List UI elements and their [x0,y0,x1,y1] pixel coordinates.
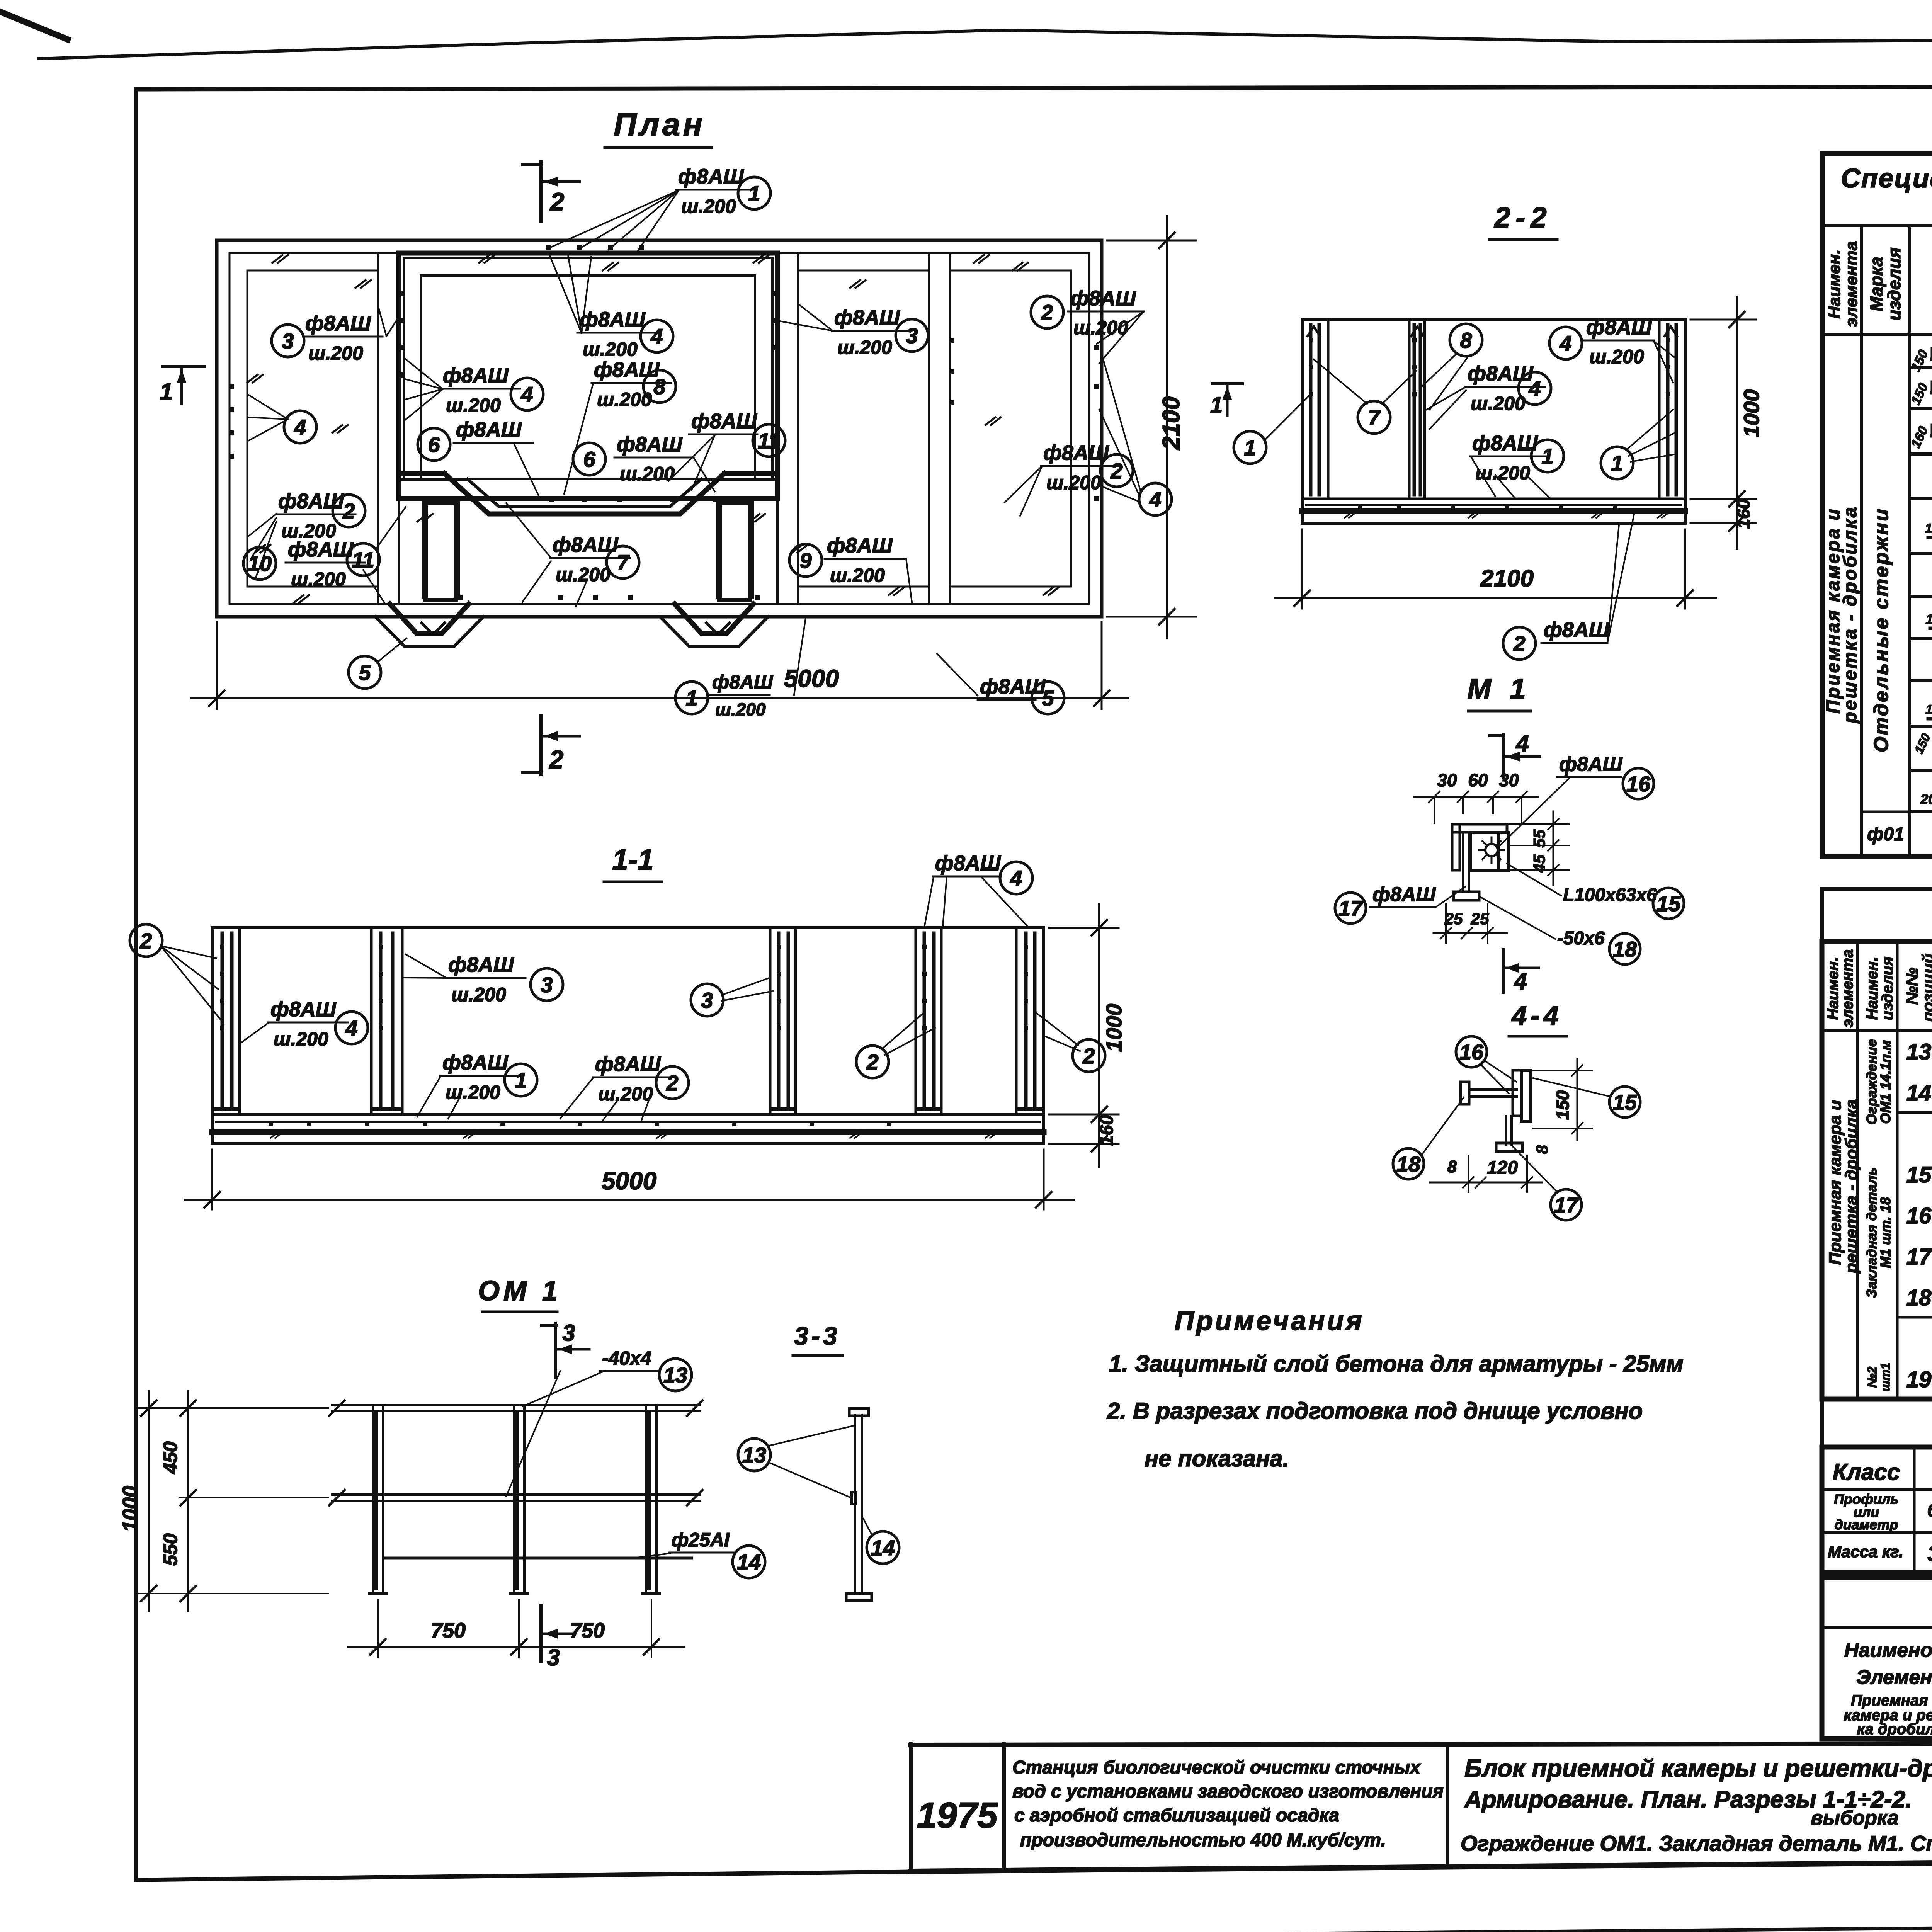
svg-text:4: 4 [1149,487,1161,512]
svg-text:8: 8 [1533,1145,1551,1154]
svg-text:35.4: 35.4 [1928,1541,1932,1566]
svg-text:ш.200: ш.200 [1475,462,1530,484]
svg-text:2: 2 [1082,1044,1095,1068]
svg-text:17: 17 [1338,896,1364,920]
svg-text:ш.200: ш.200 [281,520,336,542]
svg-text:4: 4 [1515,731,1529,757]
svg-text:8: 8 [653,374,666,399]
svg-text:8: 8 [1460,328,1472,352]
svg-text:ф01: ф01 [1867,824,1904,845]
svg-text:План: План [614,107,705,142]
svg-text:Наименован.: Наименован. [1844,1639,1932,1662]
svg-text:11: 11 [758,429,780,453]
svg-text:ш.200: ш.200 [446,395,501,416]
svg-text:100: 100 [1925,521,1932,536]
svg-text:2100: 2100 [1480,565,1534,592]
svg-text:3: 3 [701,988,713,1012]
svg-text:Станция биологической очистки: Станция биологической очистки сточных [1012,1757,1421,1778]
svg-text:с аэробной стабилизацией оса: с аэробной стабилизацией осадка [1014,1805,1339,1826]
svg-text:ш.200: ш.200 [308,342,363,364]
svg-text:45: 45 [1530,854,1548,873]
svg-text:ф8АШ: ф8АШ [1472,432,1538,455]
svg-text:ф8АШ: ф8АШ [678,165,744,188]
svg-text:1: 1 [160,379,173,405]
svg-text:ш.200: ш.200 [556,564,611,585]
svg-text:2: 2 [1513,631,1525,656]
svg-text:ф8АШ: ф8АШ [1544,618,1610,641]
svg-text:30: 30 [1499,770,1519,790]
svg-text:ф8АШ: ф8АШ [1468,362,1534,385]
svg-text:17: 17 [1906,1244,1932,1269]
svg-text:2: 2 [342,499,355,523]
svg-text:5: 5 [359,660,371,685]
svg-text:не показана.: не показана. [1145,1446,1289,1471]
svg-text:ф8АШ: ф8АШ [827,534,893,557]
svg-text:ш.200: ш.200 [1471,393,1526,414]
svg-text:Отдельные стержни: Отдельные стержни [1870,507,1893,752]
svg-text:Марка: Марка [1866,257,1886,311]
svg-text:элемента: элемента [1839,949,1856,1027]
svg-text:-50x6: -50x6 [1557,928,1605,949]
svg-text:ОМ1 14.1п.м: ОМ1 14.1п.м [1878,1040,1893,1124]
svg-text:3: 3 [282,329,294,353]
svg-text:25: 25 [1444,910,1463,928]
svg-text:Класс: Класс [1833,1459,1900,1485]
svg-text:1. Защитный слой бетона для а: 1. Защитный слой бетона для арматуры - 2… [1109,1351,1684,1377]
svg-text:ш.200: ш.200 [1589,346,1644,367]
svg-text:ш.200: ш.200 [715,699,766,719]
svg-text:10: 10 [248,551,272,576]
svg-text:750: 750 [570,1619,605,1642]
svg-text:15: 15 [1613,1090,1637,1114]
svg-text:ш.200: ш.200 [837,337,892,358]
svg-text:14: 14 [737,1550,761,1574]
svg-text:ф8АШ: ф8АШ [443,364,509,387]
svg-text:5000: 5000 [784,665,839,692]
svg-text:30: 30 [1437,770,1457,790]
svg-text:7: 7 [617,550,630,575]
svg-text:ш.200: ш.200 [830,565,885,586]
svg-text:6: 6 [428,432,440,457]
svg-text:19: 19 [1906,1367,1932,1392]
svg-text:1000: 1000 [119,1486,142,1532]
svg-text:3: 3 [547,1645,560,1670]
svg-text:выборка: выборка [1811,1807,1898,1829]
svg-text:3: 3 [562,1320,575,1346]
svg-text:3: 3 [541,973,553,997]
svg-text:ф8АШ: ф8АШ [442,1051,509,1074]
svg-text:Наимен.: Наимен. [1864,957,1881,1020]
svg-text:Примечания: Примечания [1175,1306,1364,1336]
svg-text:1: 1 [1611,451,1623,475]
svg-text:Элемента: Элемента [1856,1666,1932,1689]
svg-text:изделия: изделия [1879,957,1896,1020]
svg-text:7: 7 [1368,405,1381,430]
svg-text:18: 18 [1396,1152,1421,1176]
svg-text:производительностью 400 М.куб/: производительностью 400 М.куб/сут. [1020,1830,1386,1850]
svg-text:4: 4 [1010,866,1022,890]
svg-text:ф8АШ: ф8АШ [834,306,900,329]
svg-text:-40x4: -40x4 [602,1347,651,1369]
svg-text:5000: 5000 [602,1167,656,1195]
svg-text:2. В разрезах подготовка под: 2. В разрезах подготовка под днище услов… [1107,1398,1643,1424]
svg-text:16: 16 [1459,1040,1484,1064]
svg-text:ф8АШ: ф8АШ [1586,316,1652,339]
svg-text:2: 2 [549,187,565,216]
svg-text:2: 2 [666,1071,678,1095]
svg-text:ф8АШ: ф8АШ [691,410,757,433]
svg-text:ка дробилка: ка дробилка [1857,1721,1932,1738]
svg-text:ш.200: ш.200 [291,568,346,590]
svg-text:18: 18 [1613,937,1637,961]
svg-text:3-3: 3-3 [794,1321,840,1350]
svg-text:ф8АШ: ф8АШ [456,418,522,441]
svg-text:ф8АШ: ф8АШ [617,433,683,456]
svg-text:ш.200: ш.200 [451,984,506,1005]
svg-text:750: 750 [431,1619,466,1642]
svg-text:ш.200: ш.200 [274,1028,328,1050]
svg-text:ф8АШ: ф8АШ [580,308,646,331]
svg-text:18: 18 [1906,1285,1932,1310]
svg-text:1: 1 [1210,393,1223,418]
svg-text:б = 4: б = 4 [1927,1500,1932,1521]
svg-text:160: 160 [1097,1115,1117,1146]
svg-text:2: 2 [1041,300,1053,325]
svg-text:2: 2 [139,929,152,953]
svg-text:ОМ 1: ОМ 1 [478,1276,561,1306]
svg-text:ш.200: ш.200 [620,463,675,485]
svg-text:Блок приемной камеры и решетки: Блок приемной камеры и решетки-дробилки [1464,1754,1932,1782]
svg-text:4: 4 [1528,376,1541,401]
svg-text:решетка - дробилка: решетка - дробилка [1842,1099,1861,1274]
svg-text:1: 1 [748,181,760,206]
svg-text:ф8АШ: ф8АШ [305,312,371,335]
svg-text:ш.200: ш.200 [598,1083,653,1105]
svg-text:М1 шт. 18: М1 шт. 18 [1878,1197,1893,1268]
svg-text:Закладная деталь: Закладная деталь [1864,1167,1879,1298]
svg-text:4: 4 [1514,968,1527,994]
svg-text:120: 120 [1487,1158,1518,1178]
svg-text:1975: 1975 [917,1795,998,1835]
svg-text:позиций: позиций [1919,954,1932,1022]
svg-text:13: 13 [742,1443,766,1467]
svg-text:60: 60 [1468,770,1488,790]
svg-text:13: 13 [663,1363,687,1387]
svg-text:6: 6 [583,447,595,471]
svg-text:ф8АШ: ф8АШ [935,852,1001,875]
svg-text:диаметр: диаметр [1835,1517,1898,1532]
svg-text:ш.200: ш.200 [1046,472,1101,493]
svg-text:4: 4 [520,382,533,406]
svg-text:13: 13 [1906,1039,1932,1065]
svg-text:ф8АШ: ф8АШ [594,358,660,381]
svg-text:14: 14 [871,1536,895,1560]
svg-text:вод с установками заводского и: вод с установками заводского изготовлени… [1012,1781,1444,1802]
svg-text:2100: 2100 [1158,396,1185,450]
svg-text:4: 4 [345,1016,357,1040]
svg-text:8: 8 [1447,1157,1457,1176]
svg-text:1-1: 1-1 [612,844,654,876]
svg-text:15: 15 [1906,1162,1932,1187]
svg-text:3: 3 [906,323,918,348]
svg-text:М 1: М 1 [1467,673,1531,705]
svg-text:15: 15 [1656,891,1681,916]
svg-text:25: 25 [1471,910,1489,928]
svg-text:ф8АШ: ф8АШ [595,1053,661,1076]
svg-text:4-4: 4-4 [1511,1000,1562,1031]
svg-text:1000: 1000 [1102,1004,1126,1052]
svg-text:шт1: шт1 [1878,1363,1892,1392]
svg-text:ш.200: ш.200 [583,338,638,360]
svg-text:Масса кг.: Масса кг. [1828,1543,1903,1561]
svg-text:450: 450 [160,1441,181,1474]
svg-text:150: 150 [1553,1090,1573,1120]
svg-text:№№: №№ [1903,968,1921,1005]
svg-text:2: 2 [866,1050,878,1074]
svg-text:4: 4 [650,324,663,349]
svg-text:решетка - дробилка: решетка - дробилка [1840,505,1861,724]
svg-text:Ограждение ОМ1. Закладная дета: Ограждение ОМ1. Закладная деталь М1. Спе… [1461,1831,1932,1855]
svg-text:ф8АШ: ф8АШ [448,953,514,976]
svg-text:2: 2 [1110,459,1122,483]
svg-text:11: 11 [352,548,374,572]
svg-text:160: 160 [1733,499,1753,529]
svg-text:ш.200: ш.200 [446,1082,500,1103]
svg-text:16: 16 [1626,772,1651,796]
svg-text:14: 14 [1906,1080,1932,1105]
svg-text:ф8АШ: ф8АШ [1372,883,1436,906]
svg-text:1: 1 [515,1068,527,1092]
svg-text:№2: №2 [1865,1367,1879,1388]
svg-text:9: 9 [799,548,811,573]
svg-text:Ограждение: Ограждение [1864,1039,1879,1125]
svg-text:изделия: изделия [1884,247,1904,320]
svg-text:ш.200: ш.200 [681,196,736,217]
svg-text:элемента: элемента [1842,241,1861,327]
svg-text:ф8АШ: ф8АШ [270,998,337,1021]
svg-text:100: 100 [1926,612,1932,627]
svg-text:1: 1 [1541,444,1553,468]
svg-text:4: 4 [294,415,306,439]
svg-text:55: 55 [1530,829,1548,847]
svg-text:550: 550 [160,1533,181,1566]
svg-text:ф8АШ: ф8АШ [1559,753,1622,776]
svg-text:Спецификация арматуры на один: Спецификация арматуры на один [1841,163,1932,193]
svg-text:ф25АІ: ф25АІ [672,1529,730,1551]
svg-text:ф8АШ: ф8АШ [1043,441,1109,464]
svg-text:ф8АШ: ф8АШ [1070,287,1136,310]
svg-text:Наимен.: Наимен. [1825,250,1844,319]
svg-text:2-2: 2-2 [1494,201,1552,233]
svg-text:1: 1 [1244,435,1256,460]
svg-text:16: 16 [1906,1203,1932,1228]
svg-text:2: 2 [549,745,564,774]
svg-text:17: 17 [1554,1193,1579,1217]
svg-text:ф8АШ: ф8АШ [712,671,773,693]
svg-text:100: 100 [1925,702,1932,716]
svg-text:1000: 1000 [1739,389,1764,438]
svg-text:4: 4 [1559,331,1571,355]
svg-text:L100x63x6: L100x63x6 [1563,885,1657,905]
svg-text:200: 200 [1920,791,1932,807]
